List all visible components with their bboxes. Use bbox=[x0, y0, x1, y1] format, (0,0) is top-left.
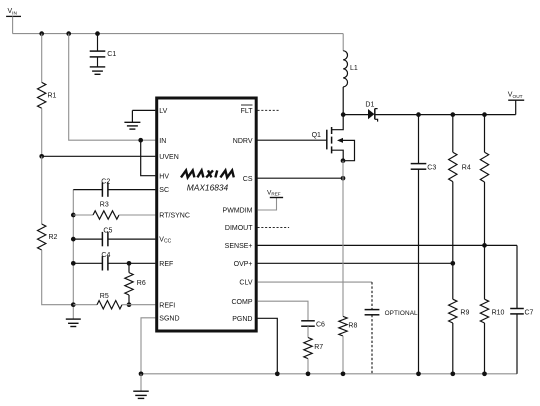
wire R4 to R9 bbox=[452, 182, 454, 300]
wire COMP branch bbox=[258, 301, 309, 320]
svg-text:R3: R3 bbox=[100, 202, 109, 209]
node PGND ground junction bbox=[275, 371, 280, 376]
wire junction top B bbox=[66, 31, 71, 36]
node R9 ground junction bbox=[450, 371, 455, 376]
wire DIMOUT stub bbox=[258, 227, 290, 229]
wire bottom ground rail bbox=[141, 373, 517, 375]
node REF/R6 junction bbox=[127, 261, 132, 266]
transistor Q1 bbox=[312, 115, 355, 161]
pin label SENSE+ bbox=[225, 243, 253, 250]
svg-text:Q1: Q1 bbox=[312, 132, 321, 139]
capacitor C2 bbox=[73, 179, 155, 197]
wire RSENSE to SENSE+ bbox=[484, 182, 486, 245]
svg-text:PGND: PGND bbox=[232, 316, 252, 323]
pin label FLT bbox=[241, 105, 254, 115]
capacitor C5 bbox=[73, 228, 155, 247]
capacitor C3 bbox=[411, 115, 437, 374]
svg-text:C2: C2 bbox=[101, 179, 110, 186]
svg-text:RT/SYNC: RT/SYNC bbox=[159, 213, 190, 220]
svg-text:SENSE+: SENSE+ bbox=[225, 243, 253, 250]
pin label VCC bbox=[159, 237, 171, 245]
resistor R1 bbox=[38, 82, 57, 108]
pin label UVEN bbox=[159, 154, 178, 161]
svg-text:CLV: CLV bbox=[239, 280, 252, 287]
node C3 ground junction bbox=[416, 371, 421, 376]
svg-text:VCC: VCC bbox=[159, 237, 171, 245]
wire CLV row bbox=[258, 281, 373, 283]
pin label REFI bbox=[159, 302, 175, 309]
wire R2 bottom to REFI row bbox=[42, 250, 74, 305]
pin label HV bbox=[159, 173, 169, 180]
node R3 junction bbox=[71, 213, 76, 218]
resistor R2 bbox=[38, 224, 58, 250]
node IN junction bbox=[138, 138, 143, 143]
wire junction top A bbox=[39, 31, 44, 36]
inductor L1 bbox=[343, 34, 358, 115]
capacitor C1 bbox=[90, 34, 117, 67]
svg-text:SGND: SGND bbox=[159, 315, 179, 322]
svg-text:UVEN: UVEN bbox=[159, 154, 178, 161]
net VIN terminal bbox=[6, 8, 21, 33]
node R4 top junction bbox=[450, 112, 455, 117]
node RSENSE top junction bbox=[482, 112, 487, 117]
wire R8 to ground rail bbox=[342, 336, 344, 374]
svg-text:REF: REF bbox=[159, 261, 173, 268]
wire VIN top rail bbox=[13, 33, 344, 35]
capacitor OPTIONAL bbox=[365, 282, 418, 374]
svg-text:R8: R8 bbox=[348, 323, 357, 330]
node C6R7 ground junction bbox=[306, 371, 311, 376]
svg-text:C6: C6 bbox=[316, 322, 325, 329]
svg-text:COMP: COMP bbox=[232, 299, 253, 306]
wire IN-to-HV link bbox=[141, 140, 156, 176]
svg-text:R10: R10 bbox=[492, 310, 505, 317]
svg-text:REFI: REFI bbox=[159, 302, 175, 309]
svg-text:L1: L1 bbox=[350, 65, 358, 72]
ground below C1 bbox=[90, 67, 106, 74]
resistor RSENSE bbox=[480, 115, 488, 182]
pin label SC bbox=[159, 187, 169, 194]
node OVP+ junction bbox=[450, 261, 455, 266]
svg-text:C3: C3 bbox=[427, 165, 436, 172]
wire source to R8 bbox=[342, 161, 344, 317]
capacitor C7 bbox=[510, 245, 533, 373]
svg-text:R2: R2 bbox=[49, 234, 58, 241]
net VOUT terminal bbox=[508, 92, 524, 115]
node C5 junction bbox=[71, 237, 76, 242]
svg-text:HV: HV bbox=[159, 173, 169, 180]
wire UVEN row bbox=[42, 155, 156, 157]
svg-text:MAX16834: MAX16834 bbox=[187, 182, 229, 192]
pin label DIMOUT bbox=[225, 225, 253, 232]
pin label PGND bbox=[232, 316, 252, 323]
svg-text:C4: C4 bbox=[101, 252, 110, 259]
pin label OVP+ bbox=[234, 261, 253, 268]
svg-text:R7: R7 bbox=[314, 344, 323, 351]
node C4 junction bbox=[71, 261, 76, 266]
svg-text:R6: R6 bbox=[137, 280, 146, 287]
node diode anode junction bbox=[341, 112, 346, 117]
node R10 ground junction bbox=[482, 371, 487, 376]
wire SGND to ground bbox=[141, 318, 155, 374]
wire R9 to ground rail bbox=[452, 323, 454, 374]
wire R10 to ground rail bbox=[484, 323, 486, 374]
node UVEN junction bbox=[39, 154, 44, 159]
ground at LV pin bbox=[124, 110, 155, 129]
pin label RT/SYNC bbox=[159, 213, 190, 220]
svg-text:NDRV: NDRV bbox=[233, 138, 253, 145]
resistor R6 bbox=[125, 263, 146, 304]
svg-text:R9: R9 bbox=[460, 310, 469, 317]
svg-text:PWMDIM: PWMDIM bbox=[223, 208, 253, 215]
label MAX16834 bbox=[187, 182, 229, 192]
node R6 bottom junction bbox=[127, 302, 132, 307]
resistor R8 bbox=[339, 316, 358, 336]
wire R2 top lead bbox=[41, 156, 43, 224]
wire CS row bbox=[258, 177, 344, 179]
pin label CS bbox=[243, 176, 253, 183]
svg-text:CS: CS bbox=[243, 176, 253, 183]
resistor R9 bbox=[449, 299, 470, 323]
pin label PWMDIM bbox=[223, 208, 253, 215]
wire R1 to UVEN node bbox=[41, 108, 43, 156]
svg-text:R4: R4 bbox=[462, 165, 471, 172]
capacitor C6 bbox=[301, 321, 325, 329]
ground main bottom bbox=[133, 374, 149, 399]
node Q1 source junction bbox=[341, 158, 346, 163]
pin label REF bbox=[159, 261, 173, 268]
wire R1/R2 left column upper bbox=[41, 34, 43, 83]
node R8 ground junction bbox=[341, 371, 346, 376]
svg-text:OPTIONAL: OPTIONAL bbox=[385, 310, 418, 317]
wire NDRV to gate bbox=[258, 139, 327, 141]
capacitor C4 bbox=[73, 252, 155, 271]
node CS junction bbox=[341, 176, 346, 181]
wire OVP+ row bbox=[258, 262, 453, 264]
diode D1 bbox=[343, 101, 516, 121]
svg-text:DIMOUT: DIMOUT bbox=[225, 225, 253, 232]
wire FLT stub bbox=[258, 109, 280, 111]
wire SENSE+ row bbox=[258, 244, 518, 246]
wire PGND branch bbox=[258, 318, 278, 374]
svg-text:SC: SC bbox=[159, 187, 169, 194]
svg-text:R5: R5 bbox=[100, 293, 109, 300]
pin label NDRV bbox=[233, 138, 253, 145]
wire left bypass column bbox=[72, 190, 74, 320]
resistor R5 bbox=[73, 293, 155, 309]
resistor R10 bbox=[480, 245, 504, 323]
pin label IN bbox=[159, 138, 166, 145]
resistor R7 bbox=[304, 326, 323, 374]
net VREF terminal bbox=[258, 189, 284, 210]
ground left bypass bbox=[66, 319, 81, 326]
node SGND ground junction bbox=[139, 371, 144, 376]
svg-text:OVP+: OVP+ bbox=[234, 261, 253, 268]
svg-text:C7: C7 bbox=[525, 310, 534, 317]
resistor R4 bbox=[449, 115, 471, 182]
wire junction top C bbox=[95, 31, 100, 36]
pin label LV bbox=[159, 108, 167, 115]
svg-text:D1: D1 bbox=[365, 101, 374, 108]
pin label COMP bbox=[232, 299, 253, 306]
op-amp U1 MAX16834 IC body bbox=[157, 98, 257, 331]
svg-text:C5: C5 bbox=[103, 228, 112, 235]
svg-text:C1: C1 bbox=[107, 51, 116, 58]
resistor R3 bbox=[73, 202, 155, 220]
svg-text:LV: LV bbox=[159, 108, 167, 115]
node C3 top junction bbox=[416, 112, 421, 117]
wire IN branch bbox=[69, 34, 156, 141]
svg-text:IN: IN bbox=[159, 138, 166, 145]
node SENSE+ junction bbox=[482, 243, 487, 248]
pin label SGND bbox=[159, 315, 179, 322]
svg-text:FLT: FLT bbox=[241, 108, 254, 115]
svg-text:R1: R1 bbox=[48, 93, 57, 100]
pin label CLV bbox=[239, 280, 252, 287]
node REFI left junction bbox=[71, 302, 76, 307]
logo MAXIM bbox=[181, 170, 234, 177]
